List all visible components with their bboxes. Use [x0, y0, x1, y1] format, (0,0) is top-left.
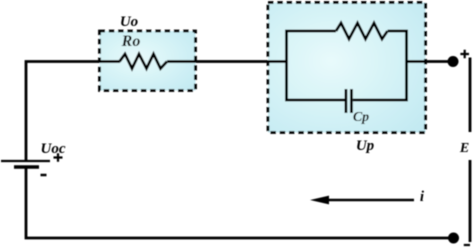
wire: parallel network right vertical [405, 31, 408, 100]
wire: battery bottom + bottom rail [26, 168, 449, 238]
dashed box Uo (series resistance branch) [100, 31, 196, 91]
capacitor Cp plates [344, 89, 347, 113]
wire: output to positive terminal [407, 60, 450, 63]
terminal minus sign [464, 244, 470, 246]
battery minus sign [41, 174, 47, 177]
wire: Ro to parallel network [167, 60, 287, 63]
dashed box Up (parallel RC branch) [268, 3, 426, 133]
node: negative terminal dot [448, 233, 459, 244]
wire: top branch left segment [285, 30, 336, 33]
wire: left vertical + top horizontal to Ro [26, 62, 120, 161]
E measurement line lower segment [469, 160, 472, 242]
svg-text:Cp: Cp [353, 110, 369, 125]
svg-text:Uo: Uo [120, 14, 138, 30]
wire: bottom branch right segment [353, 99, 408, 102]
svg-text:i: i [420, 189, 425, 205]
battery Uoc long plate (+) [1, 160, 50, 162]
wire: bottom branch left segment [285, 99, 344, 102]
wire: parallel network left vertical [285, 31, 288, 100]
svg-text:Ro: Ro [121, 33, 141, 50]
svg-text:E: E [459, 141, 469, 156]
resistor (in Up box) [336, 23, 388, 39]
node: positive terminal dot [448, 56, 459, 67]
svg-text:Uoc: Uoc [41, 141, 66, 157]
battery plus sign [54, 153, 63, 162]
resistor Ro [120, 54, 168, 69]
E measurement line upper segment [469, 58, 472, 133]
wire: top branch right segment [388, 30, 408, 33]
svg-text:Up: Up [356, 138, 375, 154]
current arrow i [328, 199, 414, 202]
battery Uoc short plate (-) [14, 165, 39, 169]
terminal plus sign [460, 50, 469, 59]
